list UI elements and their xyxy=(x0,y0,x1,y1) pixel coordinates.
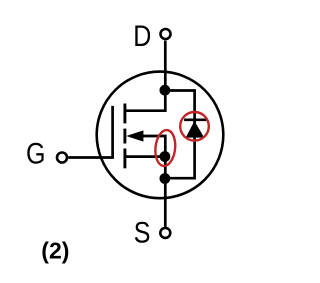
svg-text:(2): (2) xyxy=(41,238,69,264)
svg-text:G: G xyxy=(26,137,45,171)
svg-text:S: S xyxy=(134,216,151,250)
svg-text:D: D xyxy=(133,19,151,53)
